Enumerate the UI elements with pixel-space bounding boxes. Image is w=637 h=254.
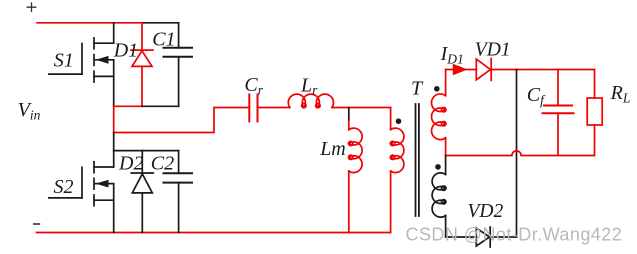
wire Cr to Lr: [258, 107, 290, 109]
node primary polarity dot: [396, 118, 402, 124]
wire D2 C2 top black: [114, 150, 179, 152]
svg-text:C2: C2: [151, 152, 174, 174]
inductor Lr: [288, 94, 333, 108]
svg-text:T: T: [411, 78, 424, 100]
wire S2 drain drop black: [113, 133, 115, 168]
capacitor Cf: [543, 70, 574, 156]
wire Lr to transformer: [332, 107, 391, 109]
svg-text:RL: RL: [610, 82, 631, 105]
wire midpoint drop red: [113, 106, 115, 132]
wire mid node to Cr: [114, 108, 250, 133]
svg-text:Cr: Cr: [244, 74, 263, 97]
capacitor Cr: [249, 95, 257, 122]
wire VD1 to RL: [491, 69, 594, 71]
transistor S2: [49, 162, 114, 233]
wire top rail red: [37, 22, 142, 24]
node secondary top polarity dot: [434, 86, 440, 92]
wire D1 to C1 black: [142, 105, 179, 107]
plus terminal: [27, 3, 36, 12]
wire S1-source junction red: [114, 105, 142, 107]
svg-text:C1: C1: [152, 28, 175, 50]
svg-text:S2: S2: [54, 176, 74, 198]
diode D2: [131, 151, 153, 233]
wire top rail black: [142, 22, 179, 24]
wire bottom rail red: [37, 232, 391, 234]
wire output bottom with hop: [446, 151, 595, 156]
resistor RL: [587, 70, 602, 156]
transformer secondary bottom winding: [432, 156, 476, 238]
wire Lm bottom: [348, 171, 350, 233]
diode D1: [131, 23, 153, 107]
svg-text:D2: D2: [118, 152, 143, 174]
wire Lm top red: [348, 121, 350, 130]
transformer secondary top winding: [432, 70, 446, 156]
svg-text:D1: D1: [113, 39, 138, 61]
svg-text:VD2: VD2: [468, 201, 504, 222]
wire secondary to VD1: [446, 69, 477, 71]
transformer T core: [416, 104, 419, 216]
minus terminal: [34, 223, 40, 225]
node Lm branch black stub: [348, 108, 350, 121]
node secondary bottom polarity dot: [435, 164, 441, 170]
svg-text:ID1: ID1: [440, 43, 464, 66]
diode VD2: [476, 227, 490, 247]
svg-text:S1: S1: [54, 49, 74, 71]
svg-text:VD1: VD1: [475, 39, 511, 60]
capacitor C2: [164, 151, 193, 233]
svg-text:Lm: Lm: [319, 138, 346, 160]
transformer T primary winding: [390, 108, 404, 233]
svg-text:Vin: Vin: [18, 99, 41, 122]
current arrow ID1: [453, 64, 468, 75]
svg-text:Cf: Cf: [527, 84, 546, 107]
capacitor C1: [164, 23, 193, 107]
transistor S1: [49, 23, 114, 107]
inductor Lm: [349, 128, 363, 172]
diode VD1: [476, 59, 491, 81]
svg-text:CSDN @Not-Dr.Wang422: CSDN @Not-Dr.Wang422: [406, 224, 623, 244]
svg-text:Lr: Lr: [300, 74, 318, 97]
wire VD2 to return: [490, 236, 516, 238]
wire VD2 return vertical black: [516, 70, 518, 238]
